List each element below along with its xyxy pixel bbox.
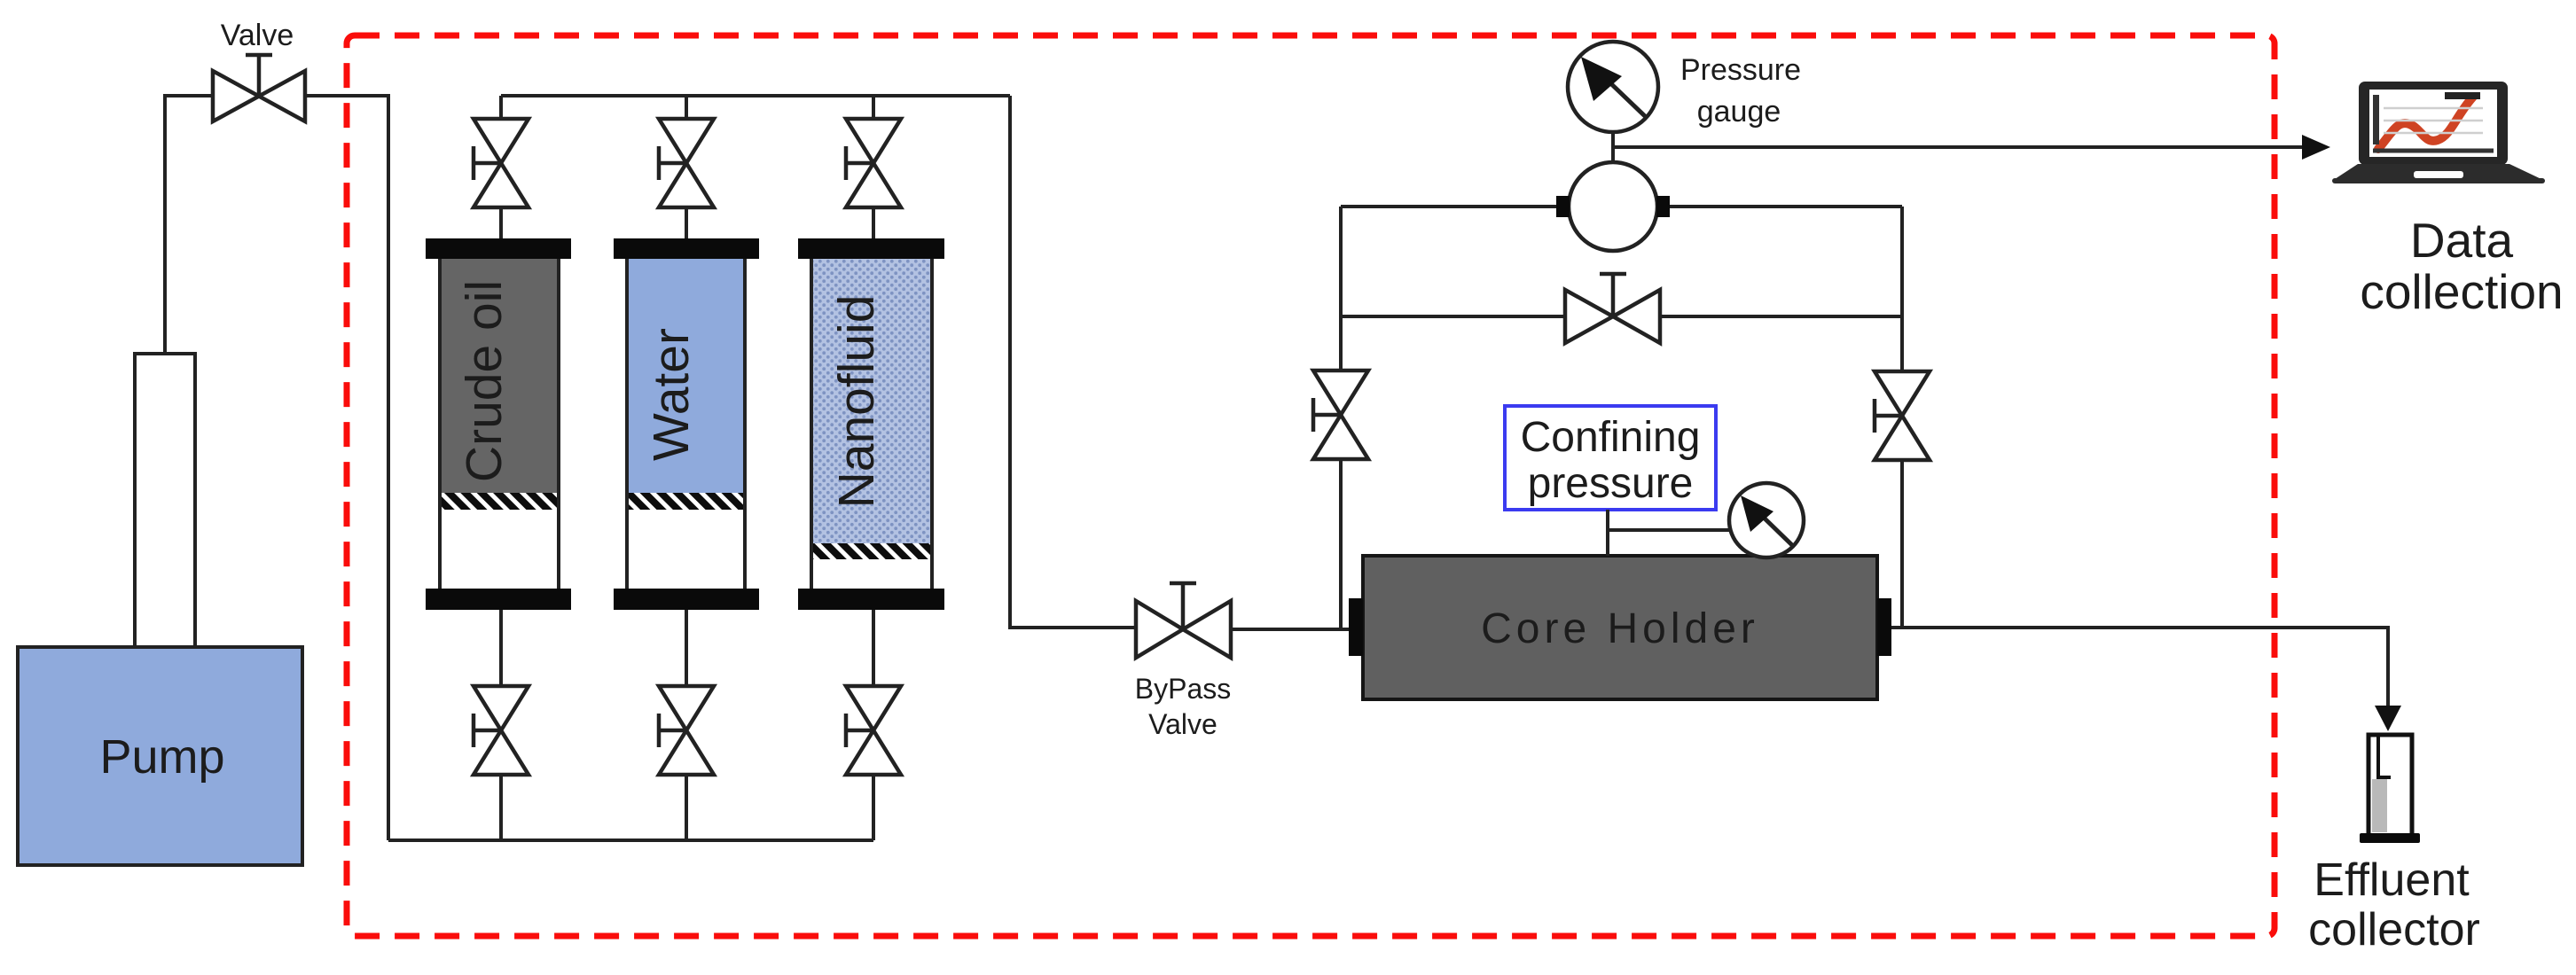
wire loop left branch <box>1339 207 1343 628</box>
pressure gauge <box>1568 42 1658 132</box>
svg-text:pressure: pressure <box>1528 460 1694 507</box>
valve (pump outlet) <box>213 55 305 121</box>
svg-text:collection: collection <box>2360 264 2563 319</box>
wire confining connector <box>1608 510 1729 556</box>
laptop data collection <box>2332 82 2545 183</box>
pump <box>18 647 302 865</box>
svg-text:Data: Data <box>2410 213 2514 268</box>
valve top crude <box>474 119 529 207</box>
svg-text:Nanofluid: Nanofluid <box>828 295 885 509</box>
loop left valve <box>1313 370 1368 459</box>
svg-text:ByPass: ByPass <box>1135 673 1231 705</box>
wire stems bottom valves <box>501 609 873 840</box>
svg-text:Effluent: Effluent <box>2314 854 2470 906</box>
wire gauge connector <box>1611 132 1615 163</box>
wire loop right branch <box>1900 207 1904 628</box>
valve bottom nanofluid <box>846 686 901 775</box>
svg-text:gauge: gauge <box>1697 95 1781 129</box>
confining gauge <box>1729 483 1804 558</box>
valve top water <box>659 119 714 207</box>
valve bottom crude <box>474 686 529 775</box>
wire loop top line <box>1341 205 1902 208</box>
valve bottom water <box>659 686 714 775</box>
wire loop mid line <box>1341 315 1902 318</box>
red dashed boundary <box>347 35 2275 936</box>
svg-text:Pump: Pump <box>99 730 224 784</box>
svg-text:collector: collector <box>2308 904 2480 955</box>
svg-text:Crude oil: Crude oil <box>456 280 513 482</box>
wire stems top valves <box>501 96 873 240</box>
accumulator water <box>614 238 759 610</box>
wire main line down to bypass level <box>1010 96 1136 628</box>
wire data arrow <box>1613 145 2304 149</box>
pump piston cylinder <box>135 354 195 647</box>
svg-text:Pressure: Pressure <box>1680 53 1801 87</box>
wire effluent line <box>1891 628 2388 707</box>
wire valve to riser and down to bottom manifold <box>305 96 388 840</box>
loop mid valve <box>1565 274 1660 343</box>
core holder <box>1363 556 1877 699</box>
accumulator nanofluid <box>798 238 944 610</box>
wire bottom manifold <box>388 838 873 842</box>
svg-text:Confining: Confining <box>1521 414 1701 461</box>
accumulator crude oil <box>426 238 571 610</box>
svg-text:Water: Water <box>643 328 700 461</box>
svg-text:Core Holder: Core Holder <box>1481 605 1759 652</box>
wire top manifold <box>501 94 1010 97</box>
bypass valve <box>1136 583 1231 658</box>
confining pressure label box <box>1505 406 1716 510</box>
wire bypass valve to core holder <box>1231 628 1351 631</box>
effluent collector <box>2360 735 2420 843</box>
loop right valve <box>1875 371 1930 460</box>
svg-text:Valve: Valve <box>1148 708 1218 740</box>
svg-text:Valve: Valve <box>221 19 294 52</box>
wire pump to valve <box>165 96 213 354</box>
pressure transducer <box>1569 162 1657 251</box>
valve top nanofluid <box>846 119 901 207</box>
